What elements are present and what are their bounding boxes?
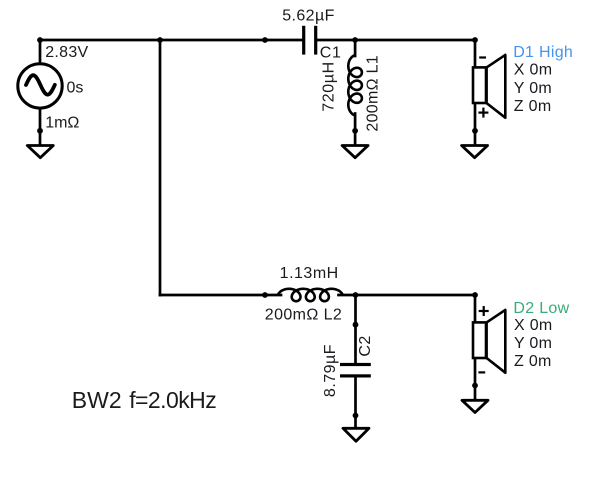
svg-text:5.62µF: 5.62µF xyxy=(282,8,335,25)
node D1 top xyxy=(472,37,478,43)
wire top rail right (C1 to D1) xyxy=(317,39,475,42)
svg-text:0s: 0s xyxy=(67,79,84,96)
svg-text:200mΩ L1: 200mΩ L1 xyxy=(365,55,382,132)
speaker D2 horn xyxy=(487,310,506,373)
speaker D1 plus sign xyxy=(478,108,488,118)
ground (D2) xyxy=(462,400,488,412)
speaker D1 horn xyxy=(487,55,506,118)
wire D1 bottom stem xyxy=(474,103,477,145)
svg-text:200mΩ L2: 200mΩ L2 xyxy=(265,306,342,323)
wire vertical branch to bottom rail xyxy=(159,40,162,295)
node L2 left terminal xyxy=(262,292,268,298)
wire L1 bottom stem xyxy=(354,114,357,146)
wire L1 top stem xyxy=(354,40,357,56)
node L1 bottom xyxy=(352,128,358,134)
svg-text:2.83V: 2.83V xyxy=(45,44,88,61)
capacitor C1 plates xyxy=(302,26,317,55)
wire C2 bottom stem xyxy=(354,377,357,428)
speaker D2 minus sign xyxy=(478,371,485,373)
svg-text:C2: C2 xyxy=(357,335,374,356)
inductor L2 winding xyxy=(278,289,343,301)
speaker D2 plus sign xyxy=(479,306,489,316)
svg-text:D1 High: D1 High xyxy=(513,44,573,61)
svg-text:Y 0m: Y 0m xyxy=(514,335,552,352)
wire D2 top stem xyxy=(474,295,477,322)
node C1/L1 junction xyxy=(352,37,358,43)
svg-text:C1: C1 xyxy=(320,44,342,61)
wire D1 top stem xyxy=(474,40,477,67)
node D2 top xyxy=(472,292,478,298)
node L2/C2 junction xyxy=(353,292,359,298)
svg-text:1mΩ: 1mΩ xyxy=(45,115,79,132)
svg-text:1.13mH: 1.13mH xyxy=(280,265,339,282)
inductor L1 winding xyxy=(348,55,362,115)
svg-text:Z 0m: Z 0m xyxy=(514,98,552,115)
speaker D1 body xyxy=(473,67,486,103)
ground (V1) xyxy=(27,146,53,158)
node C2 bottom xyxy=(353,413,359,419)
svg-text:X 0m: X 0m xyxy=(514,317,553,334)
node C1 left terminal xyxy=(262,37,268,43)
svg-text:Z 0m: Z 0m xyxy=(514,353,552,370)
voltage source V1 xyxy=(18,64,62,108)
node branch top xyxy=(157,37,163,43)
wire V1 top stem xyxy=(39,40,42,64)
svg-text:D2 Low: D2 Low xyxy=(513,300,569,317)
ground (C2) xyxy=(343,428,369,441)
wire top rail left (V1 to C1) xyxy=(40,39,302,42)
wire C2 top stem xyxy=(354,295,357,363)
node V1 bottom xyxy=(37,128,43,134)
wire bottom rail left (branch to L2) xyxy=(160,294,281,297)
svg-text:X 0m: X 0m xyxy=(514,61,553,78)
speaker D2 body xyxy=(473,322,486,358)
svg-text:720µH: 720µH xyxy=(321,61,338,111)
speaker D1 minus sign xyxy=(479,56,486,58)
svg-text:8.79µF: 8.79µF xyxy=(322,344,339,397)
ground (L1) xyxy=(342,146,368,158)
node D2 bottom xyxy=(472,383,478,389)
capacitor C2 plates xyxy=(340,363,371,378)
node V1 top xyxy=(37,37,43,43)
svg-text:f=2.0kHz: f=2.0kHz xyxy=(129,387,216,413)
wire V1 bottom stem xyxy=(39,108,42,145)
node D1 bottom xyxy=(472,128,478,134)
svg-text:Y 0m: Y 0m xyxy=(514,80,552,97)
wire bottom rail right (L2 to D2) xyxy=(339,294,476,297)
ground (D1) xyxy=(462,146,488,158)
node C2 top terminal xyxy=(353,322,359,328)
svg-text:BW2: BW2 xyxy=(72,387,122,413)
wire D2 bottom stem xyxy=(474,358,477,400)
